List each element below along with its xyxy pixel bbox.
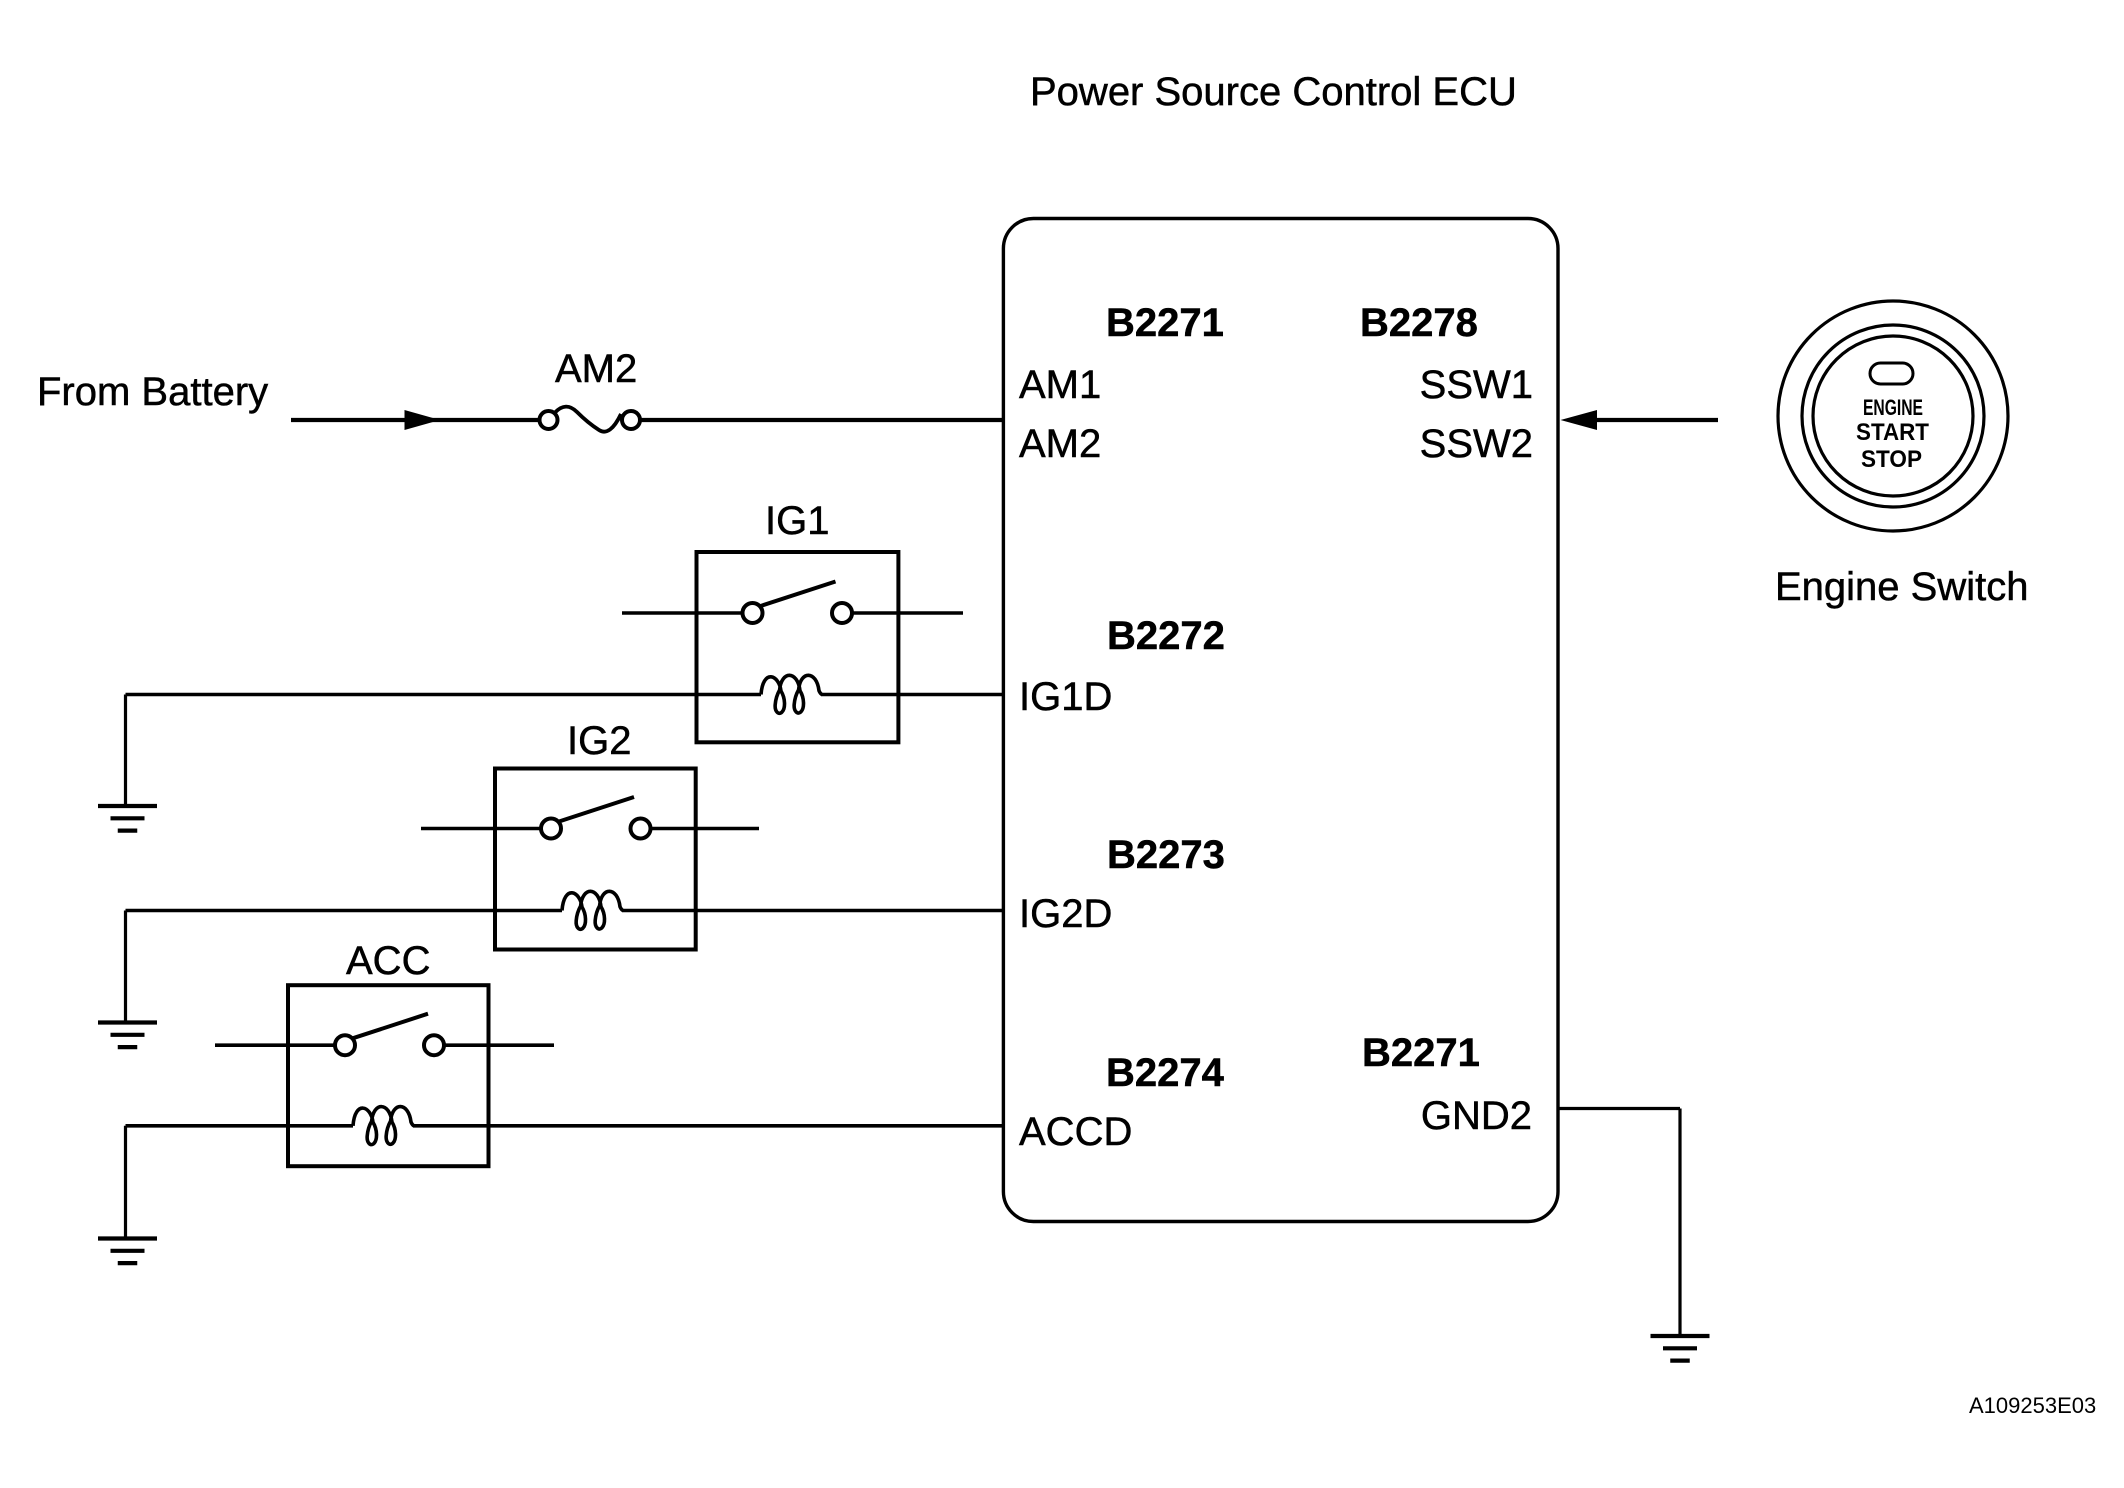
svg-text:A109253E03: A109253E03: [1969, 1393, 2096, 1418]
wire: IG2 relay coil to ECU pin IG2D: [622, 909, 1003, 913]
engine switch indicator window: [1870, 363, 1913, 384]
svg-text:START: START: [1856, 419, 1929, 446]
wire: battery feed to fuse AM2: [291, 418, 540, 422]
ground GND2: [1651, 1336, 1710, 1361]
relay IG2 switch contact wire (left stub): [421, 827, 541, 831]
wire: fuse AM2 to ECU pins AM1/AM2: [640, 418, 1003, 422]
relay IG2 box: [495, 769, 696, 950]
wire: drop to ground G1: [124, 695, 127, 807]
svg-text:From Battery: From Battery: [37, 370, 268, 414]
engine switch button bezel ring: [1802, 325, 1984, 507]
relay ACC coil: [353, 1107, 414, 1145]
engine switch button outer ring: [1778, 301, 2008, 531]
wire: GND2 drop to ground: [1678, 1109, 1681, 1337]
svg-text:B2273: B2273: [1107, 833, 1225, 877]
fuse AM2: [540, 407, 641, 432]
relay ACC switch contact right: [424, 1035, 444, 1055]
relay IG2 switch contact wire (right stub): [651, 827, 760, 831]
wire: ground to IG1 relay coil: [126, 693, 762, 697]
svg-text:B2278: B2278: [1360, 301, 1478, 345]
relay ACC switch contact wire (right stub): [444, 1043, 554, 1047]
svg-text:Power Source Control ECU: Power Source Control ECU: [1030, 70, 1517, 114]
svg-text:B2271: B2271: [1106, 301, 1224, 345]
svg-text:ACC: ACC: [346, 939, 430, 983]
svg-text:B2271: B2271: [1362, 1031, 1480, 1075]
wire: drop to ground G3: [124, 1126, 127, 1239]
ground G3: [98, 1239, 157, 1264]
relay ACC switch contact left: [335, 1035, 355, 1055]
ground G1: [98, 806, 157, 831]
relay IG1 switch contact wire (right stub): [852, 611, 963, 615]
arrow: engine switch signal direction: [1561, 410, 1598, 430]
wire: drop to ground G2: [124, 911, 127, 1023]
relay ACC switch lever: [353, 1014, 428, 1038]
relay ACC box: [288, 985, 489, 1166]
wire: ground to IG2 relay coil: [126, 909, 563, 913]
svg-text:STOP: STOP: [1861, 446, 1922, 473]
svg-text:IG2D: IG2D: [1019, 892, 1112, 936]
relay IG1 switch contact wire (left stub): [622, 611, 743, 615]
svg-text:IG1D: IG1D: [1019, 675, 1112, 719]
svg-text:ACCD: ACCD: [1019, 1110, 1132, 1154]
svg-text:IG1: IG1: [765, 499, 829, 543]
svg-text:B2272: B2272: [1107, 614, 1225, 658]
wire: engine switch to ECU pins SSW1/SSW2: [1597, 418, 1718, 422]
ECU: Power Source Control ECU box: [1003, 219, 1558, 1222]
relay IG1 switch contact right: [832, 603, 852, 623]
relay IG2 switch lever: [559, 797, 634, 822]
wire: ACC relay coil to ECU pin ACCD: [413, 1124, 1003, 1128]
wire: ground to ACC relay coil: [126, 1124, 354, 1128]
relay ACC switch contact wire (left stub): [215, 1043, 335, 1047]
svg-text:ENGINE: ENGINE: [1863, 395, 1923, 420]
relay IG1 coil: [761, 675, 822, 713]
engine switch button face: [1813, 336, 1973, 496]
ground G2: [98, 1023, 157, 1048]
relay IG2 coil: [562, 891, 623, 929]
svg-text:AM2: AM2: [1019, 422, 1101, 466]
svg-text:Engine Switch: Engine Switch: [1775, 565, 2028, 609]
wire: IG1 relay coil to ECU pin IG1D: [821, 693, 1003, 697]
svg-text:AM2: AM2: [555, 347, 637, 391]
svg-text:SSW2: SSW2: [1420, 422, 1533, 466]
svg-text:SSW1: SSW1: [1420, 363, 1533, 407]
svg-text:AM1: AM1: [1019, 363, 1101, 407]
relay IG1 switch contact left: [743, 603, 763, 623]
relay IG1 box: [697, 552, 899, 742]
wire: ECU pin GND2 to ground: [1558, 1107, 1680, 1110]
svg-text:GND2: GND2: [1421, 1094, 1532, 1138]
arrow: battery feed direction: [405, 410, 441, 430]
relay IG2 switch contact right: [631, 819, 651, 839]
svg-text:IG2: IG2: [567, 719, 631, 763]
svg-text:B2274: B2274: [1106, 1051, 1225, 1095]
relay IG2 switch contact left: [541, 819, 561, 839]
relay IG1 switch lever: [761, 582, 836, 607]
